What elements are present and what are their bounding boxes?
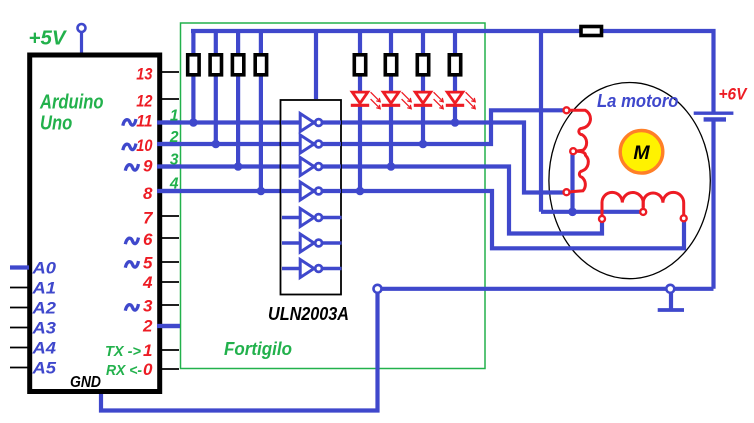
node coil L2 right terminal: [681, 215, 687, 221]
pin label ~ for 11: [123, 119, 136, 126]
wire R4 to node 4: [259, 74, 263, 191]
junction D2/node3: [387, 162, 396, 171]
wire ground bus: [378, 287, 714, 291]
pin 0 stub: [162, 368, 179, 370]
wire pin 2 exit: [157, 324, 180, 328]
wire U1 ch4: [281, 189, 341, 193]
pin A3 stub: [10, 327, 29, 329]
wire centre tap horizontal: [541, 210, 640, 214]
svg-text:A3: A3: [31, 320, 56, 338]
coil L2 left winding: [602, 192, 643, 215]
pin 3 stub: [162, 304, 179, 306]
pin 12 stub: [162, 98, 179, 100]
+5V pin stub: [80, 32, 83, 54]
buffer U1C: [300, 158, 322, 176]
Arduino Uno board: [30, 55, 160, 392]
pin 13 stub: [162, 71, 179, 73]
svg-text:10: 10: [136, 136, 153, 155]
wire R6 to D2: [389, 74, 393, 93]
junction R1/node1: [189, 118, 198, 127]
Fortigilo enclosure box: [181, 23, 486, 369]
node GND junction: [374, 285, 382, 293]
wire D1 to node 4: [358, 106, 362, 191]
junction R2/node2: [212, 140, 221, 149]
LED D3: [414, 92, 443, 109]
wire bus to R8: [453, 31, 457, 56]
wire pin 10 exit: [157, 142, 181, 146]
pin 5 stub: [162, 261, 179, 263]
wire R5 to D1: [358, 74, 362, 93]
wire pin 11 exit: [157, 120, 181, 124]
svg-text:11: 11: [136, 112, 152, 131]
resistor R1: [188, 55, 199, 75]
svg-text:+5V: +5V: [29, 28, 68, 50]
wire pin 9 exit: [157, 164, 181, 168]
pin A5 stub: [10, 367, 29, 369]
pin 4 stub: [162, 281, 179, 283]
svg-text:13: 13: [136, 65, 153, 84]
buffer U1B: [300, 135, 322, 153]
LED D4: [446, 92, 475, 109]
wire D4 to node 1: [453, 106, 457, 123]
buffer U1D: [300, 182, 322, 200]
wire node 2 (pin 10 to coil L1 top): [160, 110, 564, 144]
pin A1 stub: [10, 287, 29, 289]
buffer U1E: [282, 209, 342, 227]
wire centre tap up to coil L1 centre: [570, 155, 574, 212]
node coil L1 bottom terminal: [564, 189, 570, 195]
wire U1 ch2: [281, 142, 341, 146]
node coil L2 centre terminal: [640, 209, 646, 215]
svg-text:6: 6: [143, 230, 153, 249]
pin label ~ for 6: [125, 238, 138, 245]
svg-text:Fortigilo: Fortigilo: [224, 338, 292, 359]
wire Arduino GND to node: [101, 289, 378, 411]
svg-text:La motoro: La motoro: [597, 90, 679, 111]
wire +6V column to centre tap: [539, 31, 543, 212]
wire bus to R1: [191, 31, 195, 56]
buffer U1A: [300, 114, 322, 132]
LED D2: [382, 92, 411, 109]
svg-text:9: 9: [143, 157, 153, 176]
buffer U1G: [282, 260, 342, 278]
buffer U1F: [282, 234, 342, 252]
coil L1 lower winding: [571, 151, 589, 192]
ground symbol: [669, 289, 673, 309]
pin label ~ for 5: [125, 261, 138, 268]
svg-text:1: 1: [143, 341, 152, 360]
junction R4/node4: [257, 187, 266, 196]
pin label ~ for 10: [123, 144, 136, 151]
wire pin 2 stub: [160, 324, 180, 328]
motor outline ellipse (La motoro): [549, 83, 710, 279]
svg-text:2: 2: [169, 129, 179, 146]
wire bus to R7: [421, 31, 425, 56]
wire bus to R4: [259, 31, 263, 56]
svg-text:Uno: Uno: [40, 113, 72, 135]
node coil L1 top terminal: [564, 107, 570, 113]
wire node 1 (pin 11 to coil L1 bottom): [160, 123, 564, 193]
junction D4/node1: [451, 118, 460, 127]
svg-text:A1: A1: [31, 280, 56, 298]
LED D1: [351, 92, 380, 109]
junction D3/node2: [419, 140, 428, 149]
wire bus to R5: [358, 31, 362, 56]
resistor R7: [417, 55, 428, 75]
node coil L1 centre terminal: [570, 148, 576, 154]
svg-text:3: 3: [170, 152, 179, 169]
svg-text:3: 3: [143, 297, 153, 316]
svg-text:+6V: +6V: [719, 85, 749, 104]
wire bus to R2: [214, 31, 218, 56]
wire bus to U1 COM pin: [314, 31, 318, 99]
resistor R4: [255, 55, 266, 75]
wire pin 8 exit: [157, 189, 181, 193]
svg-text:TX ->: TX ->: [105, 344, 142, 360]
svg-text:ULN2003A: ULN2003A: [268, 304, 349, 324]
wire R2 to node 2: [214, 74, 218, 144]
pin A2 stub: [10, 307, 29, 309]
resistor R9: [581, 27, 602, 36]
pin A4 stub: [10, 347, 29, 349]
resistor R2: [210, 55, 221, 75]
wire U1 ch3: [281, 164, 341, 168]
resistor R3: [232, 55, 243, 75]
pin label ~ for 9: [125, 164, 138, 171]
motor M symbol: [620, 131, 663, 174]
node coil L2 left terminal: [599, 216, 605, 222]
svg-text:1: 1: [170, 108, 179, 125]
junction R3/node3: [234, 162, 243, 171]
pin 6 stub: [162, 237, 179, 239]
node +5V pin: [78, 24, 86, 32]
coil L2 right winding: [643, 192, 684, 214]
pin 7 stub: [162, 215, 179, 217]
wire node 4 (pin 8 to coil L2 right): [160, 191, 684, 248]
wire R3 to node 3: [236, 74, 240, 167]
svg-text:A0: A0: [31, 260, 57, 278]
node ground junction: [666, 285, 674, 293]
pin 1 stub: [162, 349, 179, 351]
wire battery negative down: [711, 120, 715, 289]
IC U1 ULN2003A box: [281, 100, 342, 295]
svg-text:RX <-: RX <-: [106, 363, 142, 379]
wire U1 ch1: [281, 120, 341, 124]
wire D3 to node 2: [421, 106, 425, 144]
junction centre tap: [568, 208, 577, 217]
wire D2 to node 3: [389, 106, 393, 167]
svg-text:A5: A5: [31, 360, 57, 378]
wire R8 to D4: [453, 74, 457, 93]
svg-text:4: 4: [142, 273, 153, 292]
svg-text:7: 7: [143, 209, 154, 228]
resistor R8: [449, 55, 460, 75]
resistor R5: [354, 55, 365, 75]
svg-text:Arduino: Arduino: [39, 92, 103, 114]
svg-text:4: 4: [169, 176, 179, 193]
svg-text:0: 0: [143, 360, 153, 379]
svg-text:12: 12: [136, 92, 153, 111]
pin A0 stub: [10, 265, 29, 269]
svg-text:GND: GND: [70, 374, 101, 391]
battery B1 +6V: [694, 113, 734, 119]
svg-text:M: M: [633, 142, 650, 164]
svg-text:5: 5: [143, 254, 153, 273]
svg-text:A2: A2: [31, 300, 56, 318]
wire +6V top bus: [191, 31, 714, 112]
wire R1 to node 1: [191, 74, 195, 123]
svg-text:8: 8: [143, 184, 153, 203]
wire R7 to D3: [421, 74, 425, 93]
pin label ~ for 3: [125, 304, 138, 311]
svg-text:A4: A4: [31, 340, 56, 358]
wire bus to R3: [236, 31, 240, 56]
junction D1/node4: [356, 187, 365, 196]
resistor R6: [385, 55, 396, 75]
wire node 3 (pin 9 to coil L2 left): [160, 167, 602, 234]
coil L1 upper winding: [568, 110, 591, 151]
svg-text:2: 2: [142, 317, 153, 336]
wire bus to R6: [389, 31, 393, 56]
